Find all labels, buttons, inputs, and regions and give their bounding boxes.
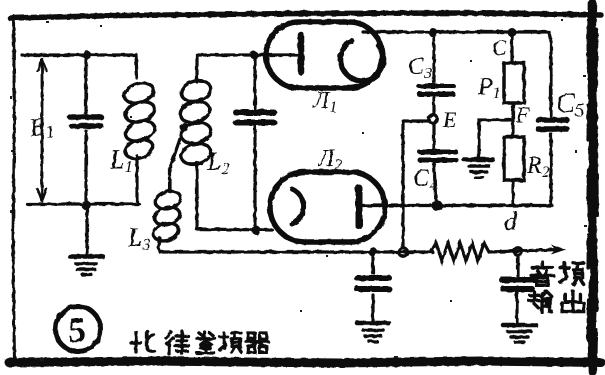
wire F to ground: [479, 120, 511, 157]
E1 measurement arrow: [41, 64, 44, 196]
svg-text:d: d: [504, 207, 518, 236]
resistor R2 body: [504, 137, 524, 180]
capacitor C3 plates: [419, 86, 453, 94]
svg-text:F: F: [515, 102, 530, 127]
svg-text:C: C: [492, 35, 507, 60]
capacitor C5 plates: [538, 120, 567, 129]
capacitor C7 plates: [502, 280, 535, 289]
wire anode rail (d level): [363, 204, 552, 207]
junction dot output cap: [369, 248, 378, 257]
wire L1 bottom lead: [135, 156, 138, 204]
border frame left: [13, 16, 15, 363]
ground (left): [70, 254, 103, 259]
node circle at tube input: [250, 51, 258, 59]
capacitor C2 plates: [236, 113, 274, 123]
border frame top: [10, 13, 601, 18]
svg-text:5: 5: [68, 310, 86, 350]
junction dot C3 top: [429, 28, 438, 37]
capacitor C5 branch: [549, 42, 552, 205]
junction node output filter: [514, 248, 522, 256]
junction dot R1 top: [508, 28, 517, 37]
tube V2 anode plate: [356, 188, 363, 226]
node circle on output rail: [399, 248, 408, 257]
capacitor C4 branch: [434, 123, 436, 205]
border frame right: [591, 3, 594, 372]
wire R1 to F: [511, 103, 514, 137]
inductor L1: [122, 79, 157, 162]
svg-text:E: E: [442, 107, 457, 132]
junction dot C4 bottom: [432, 200, 443, 211]
capacitor C6 stem: [371, 252, 374, 320]
wire bottom-left rail: [27, 202, 139, 205]
wire top rail right: [363, 32, 551, 42]
inductor L2: [178, 77, 213, 167]
figure number circle 5: [56, 307, 101, 352]
wire node E to left branch: [403, 121, 429, 248]
wire top-left rail: [22, 55, 137, 78]
ground (below C7): [503, 323, 536, 328]
wire R2 bottom lead: [511, 180, 514, 205]
tube V2 envelope: [270, 172, 385, 242]
wire L3 bottom to output rail: [158, 238, 433, 252]
output label 音频: [531, 262, 584, 286]
resistor R3 zigzag: [431, 243, 558, 261]
wire R1 top lead: [510, 32, 513, 63]
wire L2 top lead and rail to tube: [197, 55, 266, 82]
wire L2 bottom lead: [197, 163, 272, 230]
tube V1 anode plate: [298, 35, 305, 72]
capacitor C1 plates: [70, 117, 101, 126]
resistor R1 body: [504, 63, 524, 103]
tube V1 envelope: [266, 22, 382, 88]
output label 输出: [529, 291, 584, 313]
node E circle: [429, 115, 438, 124]
inductor L3: [151, 188, 183, 243]
tube V2 cathode: [292, 189, 304, 224]
tube V1 cathode: [341, 41, 384, 81]
ground (near F): [464, 157, 493, 162]
ground (below C6): [357, 321, 389, 326]
wire grid input V1: [254, 53, 297, 56]
capacitor C2 branch: [253, 57, 256, 230]
junction dot bottom-left: [81, 200, 91, 210]
output arrowhead: [551, 245, 566, 255]
junction dot cap2 bottom: [252, 226, 261, 235]
wire tap to L3: [170, 127, 184, 192]
capacitor C6 plates: [357, 278, 389, 289]
wire ground stem left: [85, 204, 88, 253]
capacitor C3 branch: [432, 32, 435, 114]
wire capacitor C1 branch: [84, 55, 87, 204]
node junction at left rail: [83, 51, 91, 59]
border frame bottom: [9, 361, 601, 363]
capacitor C4 plates: [420, 152, 456, 160]
junction dot L2 tap: [180, 123, 189, 132]
caption text 比律鉴频器: [131, 331, 268, 354]
